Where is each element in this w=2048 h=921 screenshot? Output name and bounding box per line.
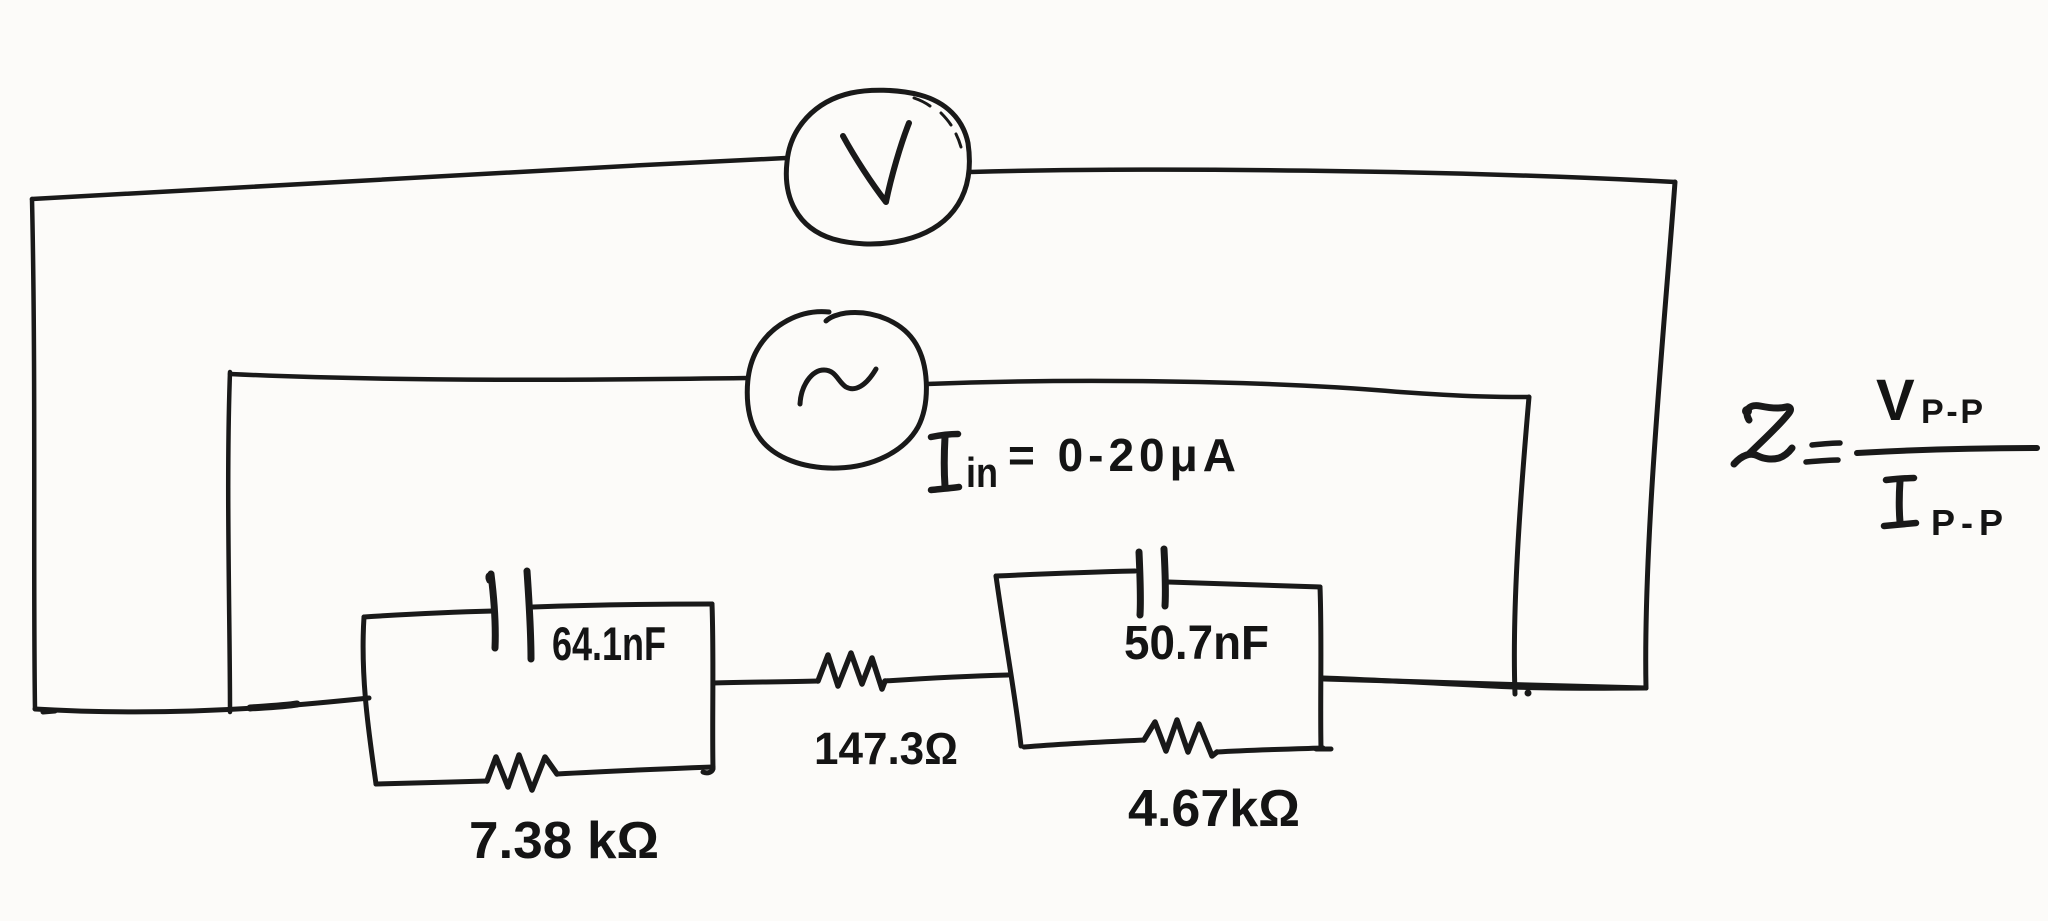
- capacitor C1 left plate: [488, 574, 495, 648]
- capacitor C2 right plate: [1164, 549, 1165, 606]
- voltmeter sketch dashes: [914, 98, 961, 147]
- voltmeter U1 circle: [786, 90, 969, 244]
- svg-text:7.38 kΩ: 7.38 kΩ: [469, 812, 659, 870]
- current source sine symbol: [800, 369, 876, 404]
- wire inner loop left vertical: [228, 372, 230, 712]
- current source I1 circle: [747, 312, 926, 468]
- equation Z = Vpp / Ipp: [1734, 368, 2037, 543]
- resistor R1 zigzag: [487, 755, 557, 790]
- wire outer loop bottom-left segment: [35, 698, 369, 712]
- svg-text:P-P: P-P: [1931, 502, 2003, 543]
- svg-text:P-P: P-P: [1921, 393, 1983, 431]
- svg-text:V: V: [1876, 368, 1915, 433]
- wire outer loop top-right segment: [970, 170, 1675, 182]
- svg-text:64.1nF: 64.1nF: [552, 617, 666, 670]
- right block top edge right part: [1168, 582, 1320, 587]
- svg-text:147.3Ω: 147.3Ω: [814, 723, 958, 774]
- wire outer loop right vertical: [1646, 182, 1675, 688]
- svg-text:in: in: [966, 449, 998, 496]
- svg-text:4.67kΩ: 4.67kΩ: [1128, 780, 1300, 838]
- svg-text:= 0-20μA: = 0-20μA: [1008, 429, 1236, 481]
- left block bottom edge left part: [376, 781, 487, 784]
- voltmeter V letter: [843, 123, 909, 202]
- left block bottom edge right part: [557, 767, 713, 774]
- left block top edge right part: [533, 604, 712, 607]
- right block bottom edge left part: [1024, 740, 1144, 747]
- wire right block to right verticals: [1323, 678, 1646, 688]
- wire inner loop top-left segment: [230, 374, 748, 380]
- resistor R2 zigzag: [818, 653, 885, 689]
- capacitor C2 value 50.7nF: [1124, 617, 1269, 670]
- wire R2 to right block: [885, 675, 1008, 681]
- right block bottom edge right part: [1217, 748, 1323, 752]
- resistor R3 value 4.67 kOhm: [1128, 780, 1300, 838]
- wire inner loop right vertical: [1514, 397, 1531, 697]
- wire left block to R2: [713, 681, 818, 683]
- left block top edge left part: [364, 611, 493, 617]
- svg-text:50.7nF: 50.7nF: [1124, 617, 1269, 670]
- resistor R2 value 147.3 Ohm: [814, 723, 958, 774]
- right block left edge wire: [996, 576, 1021, 746]
- left block right edge wire: [703, 604, 713, 773]
- left block left edge wire: [363, 617, 376, 784]
- resistor R3 zigzag: [1144, 720, 1217, 756]
- wire outer loop top-left segment: [32, 158, 786, 199]
- capacitor C1 value 64.1nF: [552, 617, 666, 670]
- resistor R1 value 7.38 kOhm: [469, 812, 659, 870]
- capacitor C2 left plate: [1139, 552, 1140, 615]
- right block right edge wire: [1316, 587, 1331, 749]
- label Iin = 0-20 uA: [931, 429, 1236, 496]
- wire outer loop left vertical: [32, 199, 35, 709]
- wire outer loop bottom-right segment: [1324, 679, 1646, 688]
- wire inner loop top-right segment: [927, 381, 1529, 397]
- right block top edge left part: [996, 571, 1135, 576]
- capacitor C1 right plate: [527, 571, 531, 659]
